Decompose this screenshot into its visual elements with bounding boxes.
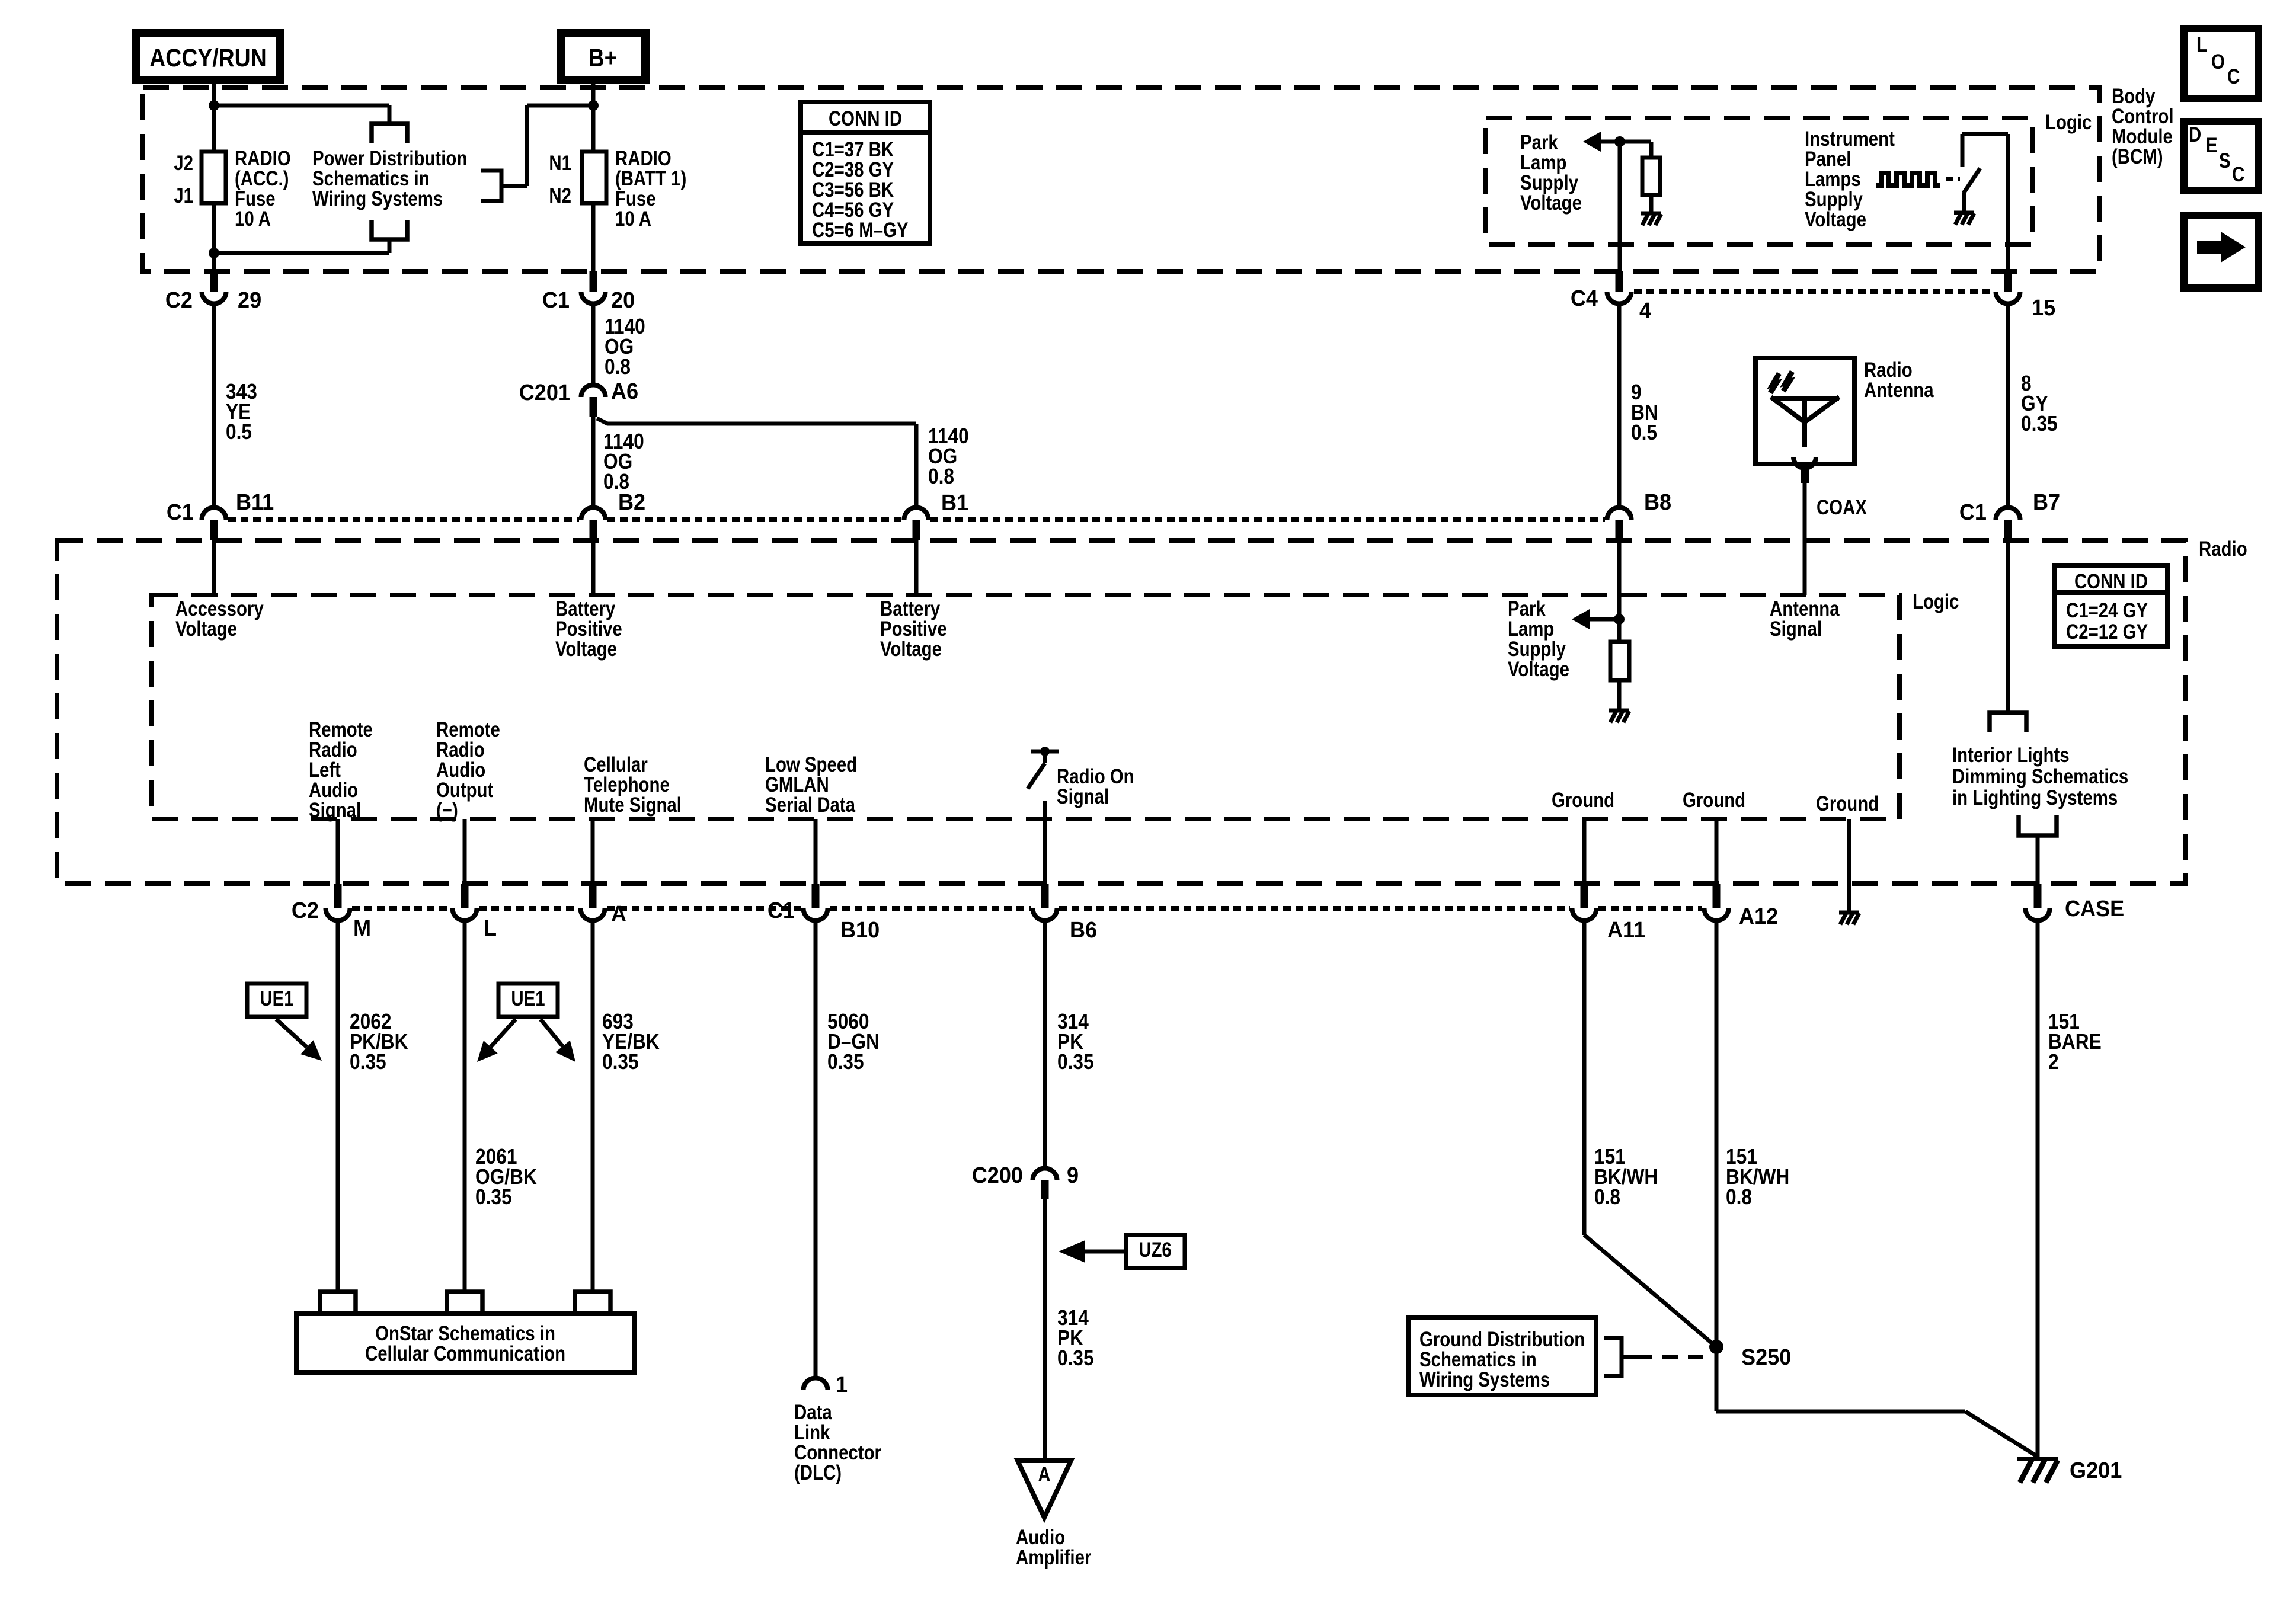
svg-text:M: M <box>353 915 371 940</box>
svg-text:1: 1 <box>836 1371 848 1397</box>
svg-text:CASE: CASE <box>2065 895 2124 921</box>
svg-text:Radio: Radio <box>2199 537 2247 561</box>
svg-text:4: 4 <box>1639 297 1651 323</box>
svg-text:20: 20 <box>611 287 635 312</box>
svg-text:UE1: UE1 <box>260 987 293 1010</box>
svg-text:0.8: 0.8 <box>605 355 631 379</box>
svg-text:O: O <box>2211 50 2225 73</box>
svg-text:C201: C201 <box>519 379 570 405</box>
svg-text:C: C <box>2232 163 2244 186</box>
svg-text:B6: B6 <box>1070 917 1097 942</box>
svg-text:C5=6 M–GY: C5=6 M–GY <box>812 219 909 242</box>
svg-text:B2: B2 <box>618 489 645 514</box>
svg-text:A: A <box>611 901 626 926</box>
svg-text:B8: B8 <box>1644 489 1671 514</box>
svg-text:0.5: 0.5 <box>1631 421 1657 444</box>
svg-text:0.35: 0.35 <box>602 1050 639 1074</box>
svg-text:E: E <box>2206 134 2218 157</box>
svg-text:ACCY/RUN: ACCY/RUN <box>149 44 266 72</box>
svg-text:15: 15 <box>2032 295 2055 320</box>
svg-text:S: S <box>2219 149 2231 172</box>
svg-text:Voltage: Voltage <box>555 638 617 661</box>
svg-text:C4: C4 <box>1571 285 1598 311</box>
svg-text:Voltage: Voltage <box>1805 208 1866 231</box>
svg-text:Serial Data: Serial Data <box>765 793 856 817</box>
svg-text:Signal: Signal <box>309 799 361 822</box>
svg-text:9: 9 <box>1067 1162 1079 1188</box>
svg-text:J2: J2 <box>174 152 193 175</box>
svg-text:A11: A11 <box>1607 917 1645 942</box>
svg-text:0.35: 0.35 <box>1057 1346 1094 1370</box>
svg-text:CONN ID: CONN ID <box>2074 570 2148 593</box>
svg-text:2: 2 <box>2048 1050 2059 1074</box>
svg-text:(DLC): (DLC) <box>794 1461 842 1484</box>
svg-text:C2=12 GY: C2=12 GY <box>2066 620 2148 644</box>
svg-text:0.35: 0.35 <box>2021 412 2058 436</box>
svg-text:C2: C2 <box>165 287 193 312</box>
svg-text:L: L <box>2196 33 2207 56</box>
svg-text:0.8: 0.8 <box>928 465 954 488</box>
svg-text:B1: B1 <box>941 489 968 515</box>
svg-text:A12: A12 <box>1739 903 1778 929</box>
svg-text:S250: S250 <box>1741 1344 1791 1369</box>
svg-text:0.35: 0.35 <box>827 1050 864 1074</box>
svg-text:L: L <box>484 915 497 940</box>
svg-text:29: 29 <box>238 287 261 312</box>
svg-text:UE1: UE1 <box>511 987 545 1010</box>
svg-text:B11: B11 <box>236 489 274 514</box>
svg-text:G201: G201 <box>2070 1457 2122 1483</box>
svg-text:0.8: 0.8 <box>1726 1185 1752 1209</box>
svg-text:in Lighting Systems: in Lighting Systems <box>1952 786 2118 809</box>
svg-text:10 A: 10 A <box>615 207 651 231</box>
svg-text:Voltage: Voltage <box>880 638 942 661</box>
svg-text:Wiring Systems: Wiring Systems <box>1419 1368 1550 1391</box>
svg-text:(BCM): (BCM) <box>2112 145 2163 168</box>
svg-text:Dimming Schematics: Dimming Schematics <box>1952 765 2128 788</box>
svg-text:10 A: 10 A <box>235 207 271 231</box>
svg-text:A: A <box>1038 1463 1050 1486</box>
svg-text:Ground: Ground <box>1552 789 1614 812</box>
svg-text:A6: A6 <box>611 378 638 404</box>
svg-text:C: C <box>2227 65 2240 88</box>
svg-text:Voltage: Voltage <box>1508 658 1569 681</box>
svg-text:UZ6: UZ6 <box>1139 1238 1172 1262</box>
svg-text:Amplifier: Amplifier <box>1016 1546 1092 1569</box>
svg-text:Voltage: Voltage <box>175 617 237 641</box>
svg-text:B10: B10 <box>840 917 880 942</box>
svg-text:Signal: Signal <box>1770 617 1822 641</box>
svg-text:0.5: 0.5 <box>226 420 252 444</box>
svg-text:Interior Lights: Interior Lights <box>1952 744 2070 767</box>
svg-text:Cellular Communication: Cellular Communication <box>365 1342 565 1365</box>
svg-text:Ground: Ground <box>1816 792 1879 815</box>
svg-text:(−): (−) <box>436 799 458 822</box>
svg-text:C1: C1 <box>167 499 194 524</box>
svg-text:CONN ID: CONN ID <box>829 107 902 130</box>
svg-text:C1: C1 <box>542 287 570 312</box>
svg-text:Wiring Systems: Wiring Systems <box>312 187 443 210</box>
svg-text:C1=24 GY: C1=24 GY <box>2066 599 2148 622</box>
svg-text:Logic: Logic <box>1913 590 1959 613</box>
svg-text:B+: B+ <box>589 44 618 72</box>
svg-text:N2: N2 <box>549 184 571 207</box>
svg-text:COAX: COAX <box>1817 496 1867 519</box>
svg-text:N1: N1 <box>549 152 571 175</box>
svg-text:C2: C2 <box>292 897 319 923</box>
svg-text:C200: C200 <box>972 1162 1023 1188</box>
svg-text:0.35: 0.35 <box>1057 1050 1094 1074</box>
svg-text:Signal: Signal <box>1057 785 1109 808</box>
svg-text:D: D <box>2189 123 2201 146</box>
svg-text:0.35: 0.35 <box>350 1050 386 1074</box>
svg-text:Ground: Ground <box>1683 789 1745 812</box>
svg-text:0.8: 0.8 <box>1594 1185 1620 1209</box>
svg-text:B7: B7 <box>2033 489 2060 514</box>
svg-text:Mute Signal: Mute Signal <box>584 793 682 817</box>
svg-text:J1: J1 <box>174 184 193 207</box>
svg-text:C1: C1 <box>1959 499 1987 524</box>
svg-text:Logic: Logic <box>2045 111 2092 134</box>
svg-text:Antenna: Antenna <box>1864 379 1934 402</box>
svg-text:0.35: 0.35 <box>475 1185 512 1209</box>
svg-text:Voltage: Voltage <box>1520 191 1582 215</box>
